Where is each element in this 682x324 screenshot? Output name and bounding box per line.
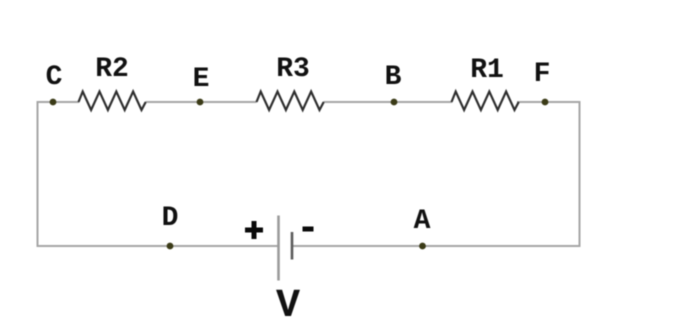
svg-text:D: D <box>162 203 179 234</box>
svg-text:R1: R1 <box>470 55 504 86</box>
wire bottom-right segment <box>292 245 581 247</box>
svg-text:R3: R3 <box>276 54 310 85</box>
resistor R1 <box>452 92 519 111</box>
resistor R2 <box>79 92 146 111</box>
wire bottom-left segment <box>37 245 279 247</box>
svg-text:A: A <box>414 206 431 237</box>
svg-text:V: V <box>276 284 300 324</box>
wire left side <box>37 102 39 246</box>
node A <box>419 243 426 250</box>
battery plus label <box>245 221 263 239</box>
svg-text:F: F <box>534 59 551 90</box>
node F <box>542 99 549 106</box>
resistor R3 <box>257 92 324 111</box>
wire right side <box>579 102 581 246</box>
svg-text:B: B <box>385 62 402 93</box>
battery V positive plate <box>277 216 280 281</box>
svg-text:R2: R2 <box>95 54 129 85</box>
wire top segment R1 to F corner <box>517 101 581 103</box>
node B <box>391 99 398 106</box>
svg-text:E: E <box>193 64 210 95</box>
wire top segment R3 to R1 <box>324 101 453 103</box>
node D <box>167 243 174 250</box>
battery minus label <box>303 227 314 232</box>
svg-text:C: C <box>46 62 63 93</box>
wire top segment C to R2 <box>37 101 80 103</box>
wire top segment R2 to R3 <box>146 101 257 103</box>
node E <box>197 99 204 106</box>
battery V negative plate <box>291 232 294 260</box>
node C <box>50 99 57 106</box>
